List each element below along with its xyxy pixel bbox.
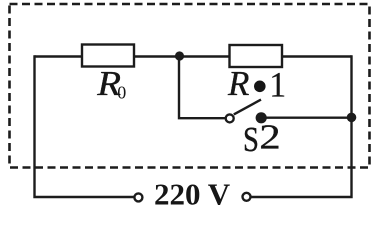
svg-text:0: 0 <box>117 83 126 103</box>
svg-text:220 V: 220 V <box>154 177 231 211</box>
svg-text:R: R <box>227 64 249 103</box>
svg-text:S: S <box>243 120 259 159</box>
svg-text:1: 1 <box>269 65 286 105</box>
svg-text:2: 2 <box>259 118 281 157</box>
